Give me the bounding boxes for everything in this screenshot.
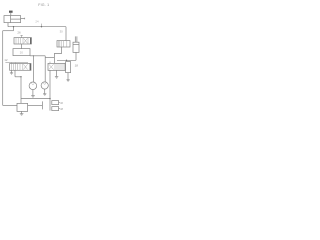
- wire A2 to valve 16 top: [45, 57, 54, 59]
- tank under cooler: [20, 113, 24, 115]
- svg-text:12: 12: [4, 58, 8, 62]
- tank under M2: [43, 93, 46, 95]
- node: junction dot mid: [41, 26, 42, 27]
- valve V14 dark end plate: [30, 64, 31, 71]
- filter bar: [41, 101, 43, 109]
- valve V16 body: [48, 63, 65, 70]
- tank blob under end box: [66, 79, 69, 81]
- valve 16 tank stem: [56, 70, 58, 76]
- cooler to filter wire: [28, 104, 43, 106]
- engine/pump divider vertical: [10, 16, 12, 23]
- motor M2 outlet: [44, 89, 46, 94]
- main supply line: [8, 26, 66, 28]
- motor M1 circle: [29, 82, 37, 90]
- pressure line down to valve 32: [65, 27, 67, 41]
- accessory box 46: [52, 101, 59, 105]
- valve V22 body: [14, 38, 31, 44]
- wire cylinder to valve 16 end box: [57, 59, 76, 61]
- wire: branch down from left dot: [13, 27, 15, 31]
- rail to cooler wire: [3, 104, 17, 106]
- pump outlet wire down: [7, 23, 9, 27]
- svg-text:20: 20: [20, 51, 24, 55]
- valve V16 end box: [66, 62, 71, 73]
- svg-text:24: 24: [35, 19, 39, 23]
- wire valve 22 to box 20: [21, 44, 23, 49]
- engine-pump unit outer box: [4, 16, 21, 23]
- node dot right: [49, 98, 50, 99]
- leader tick above mid dot: [41, 24, 43, 27]
- accessory box 48: [52, 107, 59, 111]
- control box 20: [13, 49, 30, 56]
- background: [0, 0, 90, 120]
- long wire down to cooler box: [20, 77, 22, 104]
- tank/label box 10 (small dark box above engine): [9, 11, 13, 13]
- wire down to motor 1: [32, 56, 34, 82]
- tank under M1: [31, 95, 35, 97]
- cylinder barrel: [73, 42, 79, 52]
- wire stem from box 10: [10, 13, 12, 16]
- cooler drain stem: [21, 111, 23, 113]
- pump divider horizontal: [11, 18, 21, 20]
- node dot on wire: [66, 60, 67, 61]
- piston: [73, 43, 79, 45]
- long valve16 return down: [49, 70, 51, 110]
- valve 14 tank stem: [11, 70, 13, 72]
- left return rail: [2, 31, 4, 106]
- svg-text:46: 46: [60, 101, 64, 105]
- cylinder rod: [74, 36, 76, 42]
- valve 16 top port ticks: [49, 62, 51, 64]
- cooler box 42: [17, 103, 28, 111]
- valve 14 work port wire: [14, 70, 16, 77]
- svg-text:18: 18: [75, 63, 79, 67]
- node dot: [20, 76, 21, 77]
- wire: across to left rail: [3, 30, 14, 32]
- plugged pilot port cap above valve 22: [20, 34, 22, 36]
- svg-text:26: 26: [17, 31, 21, 35]
- motor M2 circle: [41, 82, 48, 89]
- wire jog down: [44, 56, 46, 82]
- drive shaft stub: [21, 18, 25, 20]
- motor M1 outlet: [32, 90, 34, 96]
- valve V32 body: [57, 41, 70, 47]
- tank symbol under valve 14: [10, 72, 13, 74]
- svg-text:FIG. 1: FIG. 1: [38, 3, 49, 7]
- wire A horizontal from box to motors: [30, 55, 45, 57]
- drain manifold wire: [21, 98, 50, 100]
- wire above valve 14: [5, 62, 28, 64]
- svg-text:48: 48: [60, 107, 64, 111]
- cylinder port stem: [75, 52, 77, 60]
- valve V14 body: [10, 64, 31, 71]
- valve V22 dark end plate: [30, 38, 31, 44]
- valve 32 outlet elbow to valve 16: [54, 47, 61, 58]
- node: junction dot left: [13, 26, 14, 27]
- svg-text:30: 30: [60, 29, 64, 33]
- node dot at rail 1: [33, 55, 34, 56]
- end box bottom stem: [67, 73, 69, 80]
- tank symbol under valve 16: [55, 76, 58, 78]
